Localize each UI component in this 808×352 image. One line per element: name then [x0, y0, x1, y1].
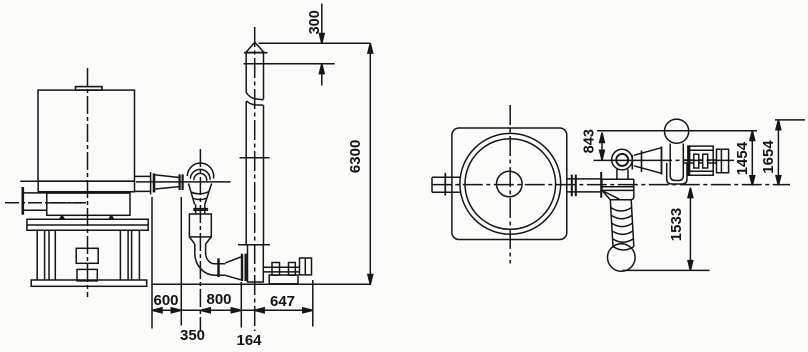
leg 3 — [120, 230, 128, 280]
shaft line top view — [683, 160, 716, 163]
arrow 800 right — [231, 308, 241, 313]
dim extension x313 — [312, 280, 314, 327]
tank outer circle — [460, 133, 561, 234]
cone flange 2 — [661, 147, 663, 175]
expanding cone to fan — [634, 148, 662, 174]
dim 843 arrow — [600, 133, 605, 160]
arrow 300 down — [319, 34, 324, 44]
right pipe flange pair — [572, 175, 576, 197]
bowl inner line — [47, 202, 83, 204]
dim extension line x152 — [151, 197, 153, 329]
table top — [27, 219, 148, 230]
dim 1654 line — [777, 120, 779, 186]
motor frame — [690, 146, 714, 175]
base plate — [31, 280, 147, 286]
arrow 600 left — [152, 308, 162, 313]
valve stand left bar — [600, 172, 602, 198]
tank rounded square — [452, 128, 567, 240]
horizontal pipe — [215, 264, 226, 275]
svg-text:350: 350 — [180, 327, 205, 344]
cluster centerline right — [652, 159, 736, 161]
arrow 647 right — [303, 308, 313, 313]
stack break symbol — [246, 93, 263, 106]
cyclone scroll inner — [194, 173, 207, 180]
cyclone hose — [189, 184, 212, 205]
outlet flange thin — [150, 172, 152, 194]
tank left pipe flange — [444, 173, 446, 196]
tank right pipe — [566, 179, 601, 192]
tank inner circle — [465, 139, 556, 230]
fan elbow shell — [667, 163, 687, 184]
svg-text:800: 800 — [206, 291, 231, 308]
svg-text:300: 300 — [307, 10, 323, 34]
coupling square 1 — [694, 154, 699, 168]
dim 1533 extension bottom — [623, 269, 710, 271]
tank horizontal centerline — [432, 184, 790, 186]
bellows segments — [611, 208, 634, 251]
leg 4 — [132, 230, 140, 280]
collector cone — [189, 237, 211, 244]
arrow 647 left — [254, 308, 264, 313]
stack cap triangle — [246, 42, 264, 52]
reducer cone — [155, 175, 179, 189]
svg-text:600: 600 — [153, 292, 178, 309]
floor line — [152, 283, 371, 285]
fan housing — [248, 245, 264, 282]
arrow 1654 bottom — [776, 176, 781, 186]
dim extension x241 — [240, 282, 242, 328]
center box lower — [77, 269, 97, 281]
stack flange low — [238, 244, 270, 246]
motor end block — [717, 149, 729, 173]
machine flange band — [20, 181, 134, 191]
motor block — [300, 258, 312, 275]
arrow 1454 top — [750, 131, 755, 141]
coupling block 2 — [289, 263, 296, 276]
coupling block 1 — [272, 263, 280, 276]
bellows sides — [610, 200, 634, 247]
inlet pipe centerline — [5, 202, 86, 204]
bellows cone — [610, 198, 634, 200]
dim 1454 line — [751, 131, 753, 186]
extension line A — [597, 130, 757, 132]
cluster centerline — [594, 159, 653, 161]
dim extension line x181 — [180, 197, 182, 326]
arrow 1454 bottom — [750, 176, 755, 186]
stack flange mid — [240, 157, 270, 159]
valve outlet flange — [631, 155, 633, 170]
expansion cone — [225, 257, 241, 280]
hose flange — [193, 209, 208, 211]
extension line B — [775, 119, 805, 121]
fan top circle — [665, 119, 689, 143]
svg-text:1533: 1533 — [668, 208, 685, 241]
machine bowl — [47, 193, 130, 215]
outlet flange thick — [153, 173, 156, 192]
dim 300 line upper — [321, 4, 323, 44]
ball valve — [612, 149, 633, 170]
inlet pipe flange — [21, 187, 24, 215]
svg-text:1454: 1454 — [734, 141, 751, 175]
hose neck — [196, 204, 205, 214]
stack upper flange — [244, 63, 335, 65]
arrow 6300 bottom — [368, 275, 373, 285]
bellows bottom ball — [608, 244, 636, 272]
arrow 1533 bottom — [688, 261, 693, 271]
cyclone scroll outer — [187, 163, 213, 178]
arrow 800 left — [200, 308, 210, 313]
arrow 1654 top — [776, 120, 781, 130]
valve stand block — [602, 179, 634, 200]
arrow 300 up — [319, 64, 324, 74]
dim 6300 line — [369, 43, 371, 284]
tank vertical centerline — [509, 105, 511, 264]
svg-text:6300: 6300 — [347, 140, 364, 173]
collector box — [189, 214, 211, 237]
svg-text:164: 164 — [236, 332, 262, 349]
coupling square 2 — [703, 154, 708, 168]
clamp mark right — [109, 216, 114, 220]
fan inlet flange — [242, 254, 246, 281]
dim 300 extension top — [259, 42, 371, 44]
tank left pipe — [432, 177, 461, 192]
cyclone pipe centerline — [136, 181, 231, 183]
clamp mark left — [60, 216, 65, 220]
svg-text:1654: 1654 — [760, 140, 777, 174]
pipe flange — [217, 258, 219, 277]
dim 300 line lower tail — [321, 64, 323, 86]
dim 1533 line — [689, 188, 691, 271]
leg 2 — [49, 230, 55, 280]
stack cap base line — [244, 52, 268, 54]
center box upper — [76, 248, 98, 263]
cyclone scroll middle — [190, 169, 210, 179]
leg 1 — [37, 230, 44, 280]
stack walls upper — [246, 53, 263, 100]
stack walls lower — [246, 101, 263, 245]
outlet flange pair 2 — [180, 174, 183, 190]
motor flange bar — [687, 145, 689, 176]
arrow 6300 top — [368, 43, 373, 53]
arrow 600 right — [171, 308, 181, 313]
cyclone centerline — [199, 149, 201, 330]
machine centerline — [87, 68, 89, 297]
tank center circle — [497, 171, 523, 197]
elbow — [195, 253, 215, 276]
svg-text:647: 647 — [270, 293, 295, 310]
machine body — [38, 90, 135, 181]
ball valve inner — [616, 154, 628, 166]
valve neck — [617, 169, 628, 179]
down pipe — [195, 244, 206, 253]
arrow 1533 top — [688, 188, 693, 198]
inlet pipe — [24, 193, 47, 210]
svg-text:843: 843 — [582, 129, 598, 153]
motor base plate — [269, 275, 298, 284]
shaft — [263, 267, 299, 272]
fan inlet stem — [670, 144, 683, 181]
cone flange 1 — [641, 151, 643, 173]
bottom dimension line — [152, 309, 313, 311]
machine top cap flange — [76, 87, 103, 91]
stack centerline — [254, 27, 256, 331]
outlet pipe body to cyclone — [135, 176, 151, 191]
